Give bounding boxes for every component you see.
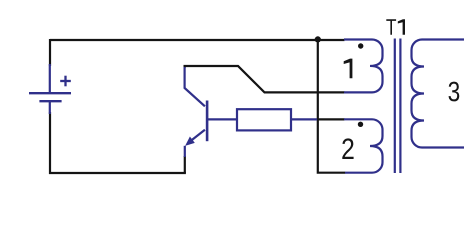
- transistor VT: collector lead: [185, 67, 205, 106]
- battery GB: top lead: [49, 64, 51, 93]
- junction dot at top rail: [315, 36, 321, 42]
- wire: resistor to winding 2 top (black part after crossover): [317, 118, 345, 120]
- transistor VT: emitter arrowhead: [185, 137, 195, 146]
- transformer designator T1: [386, 19, 396, 34]
- transformer T1: winding 2: [344, 119, 383, 172]
- wire: emitter lead black part: [184, 156, 186, 173]
- winding 2 polarity dot: [358, 122, 363, 127]
- wire: left vertical, battery bottom lead black part: [49, 112, 51, 174]
- battery GB: long positive plate: [29, 92, 71, 94]
- wire: bottom rail from battery - to emitter: [49, 172, 186, 174]
- transformer T1: winding 1: [344, 40, 383, 93]
- transistor VT: emitter diagonal with lead down: [189, 130, 205, 143]
- transformer T1: core line left: [394, 39, 396, 174]
- transformer T1: winding 3 (secondary): [412, 40, 465, 148]
- resistor R: body: [237, 109, 291, 130]
- wire: collector to winding 1 bottom: [185, 66, 345, 92]
- battery GB: short negative plate: [39, 100, 61, 102]
- wire: branch from junction down to winding 2 bottom: [318, 40, 345, 173]
- battery GB: bottom lead: [49, 101, 51, 114]
- transistor VT: base bar: [206, 101, 209, 142]
- winding 2 label: [342, 138, 353, 159]
- resistor R: right lead (blue up to crossover): [291, 118, 317, 120]
- winding 1 polarity dot: [358, 43, 363, 48]
- transistor VT: base wire to resistor: [207, 118, 236, 120]
- winding 3 label: [449, 82, 460, 102]
- transformer T1: core line right: [399, 39, 401, 174]
- battery plus sign: [60, 76, 71, 87]
- wire: left vertical, battery top lead black part: [49, 39, 51, 66]
- wire: top rail from battery + to transformer winding 1 top: [50, 39, 345, 41]
- winding 1 label: [344, 59, 353, 79]
